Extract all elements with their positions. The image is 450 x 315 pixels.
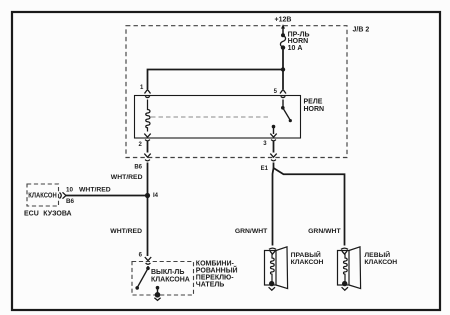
svg-text:J/B 2: J/B 2: [353, 26, 370, 33]
pin 3 connector: [270, 134, 276, 141]
horn switch contact top: [147, 266, 149, 268]
wire split to left horn: [274, 168, 345, 246]
wire fuse to junction: [282, 48, 284, 70]
junction node (fuse output): [281, 67, 285, 71]
pin 2 connector: [144, 134, 150, 141]
svg-text:КОМБИНИ-: КОМБИНИ-: [196, 261, 235, 268]
junction box J/B 2 (dashed boundary): [126, 26, 347, 158]
svg-text:10 А: 10 А: [288, 45, 303, 52]
svg-text:WHT/RED: WHT/RED: [111, 174, 143, 181]
svg-text:+12В: +12В: [275, 17, 292, 24]
wire pin 3 to E1: [273, 141, 275, 153]
right horn ПРАВЫЙ КЛАКСОН: [265, 247, 288, 289]
fuse ПР-ЛЬ HORN 10 A: [281, 33, 285, 37]
ground (right horn): [269, 287, 275, 290]
wire junction to relay pin 5: [282, 70, 284, 90]
left horn ЛЕВЫЙ КЛАКСОН: [338, 247, 361, 289]
relay switch fixed contact to pin 3: [272, 125, 276, 129]
ECU body box (dashed): [27, 184, 59, 206]
pin 1 connector: [145, 90, 151, 98]
svg-text:10: 10: [66, 187, 74, 194]
wire I4 to horn switch: [147, 196, 149, 257]
pin 5 connector: [280, 90, 286, 98]
relay switch contact from pin 5: [282, 100, 284, 108]
svg-text:GRN/WHT: GRN/WHT: [308, 228, 341, 235]
wire pin 2 to B6: [147, 141, 149, 153]
wire junction left and down to relay pin 1: [148, 70, 284, 90]
svg-text:ВЫКЛ-ЛЬ: ВЫКЛ-ЛЬ: [151, 269, 184, 276]
svg-text:КЛАКСОН: КЛАКСОН: [28, 192, 56, 199]
svg-text:WHT/RED: WHT/RED: [110, 228, 142, 235]
svg-text:I4: I4: [153, 193, 159, 199]
connector B6: [144, 154, 150, 161]
svg-text:ПЕРЕКЛЮ-: ПЕРЕКЛЮ-: [196, 275, 234, 282]
svg-text:HORN: HORN: [304, 106, 325, 113]
svg-text:КУЗОВА: КУЗОВА: [43, 211, 71, 218]
relay switch blade (open): [283, 108, 291, 121]
wire split to right horn: [273, 168, 274, 246]
left horn connector: [341, 248, 348, 254]
ECU connector: [60, 192, 67, 198]
svg-text:ПРАВЫЙ: ПРАВЫЙ: [291, 250, 321, 259]
svg-text:КЛАКСОН: КЛАКСОН: [291, 259, 324, 266]
relay HORN box: [135, 96, 301, 139]
relay internal dashed link: [151, 116, 269, 118]
combination switch box (dashed): [132, 262, 194, 296]
connector E1: [270, 154, 276, 161]
horn switch connector pin 6: [145, 257, 151, 264]
svg-text:ECU: ECU: [24, 211, 39, 218]
horn switch fixed contact to ground: [156, 286, 160, 290]
wire battery feed arrow: [282, 28, 284, 35]
ground (horn switch): [155, 292, 161, 298]
svg-text:B6: B6: [134, 164, 142, 170]
svg-text:E1: E1: [261, 166, 269, 172]
relay coil: [146, 100, 150, 132]
svg-text:КЛАКСОН: КЛАКСОН: [364, 259, 397, 266]
svg-text:ЛЕВЫЙ: ЛЕВЫЙ: [364, 250, 390, 259]
wire ECU to I4: [66, 195, 148, 197]
wire E1 to split: [273, 163, 275, 169]
svg-text:КЛАКСОНА: КЛАКСОНА: [151, 277, 190, 284]
ground (left horn): [342, 287, 348, 290]
svg-text:GRN/WHT: GRN/WHT: [235, 228, 268, 235]
wire B6 to node I4: [147, 163, 149, 196]
svg-text:РОВАННЫЙ: РОВАННЫЙ: [196, 266, 238, 275]
node I4: [145, 193, 150, 198]
right horn connector: [269, 248, 276, 254]
svg-text:HORN: HORN: [288, 38, 309, 45]
svg-text:РЕЛЕ: РЕЛЕ: [304, 98, 323, 105]
svg-text:B6: B6: [66, 198, 75, 205]
horn switch blade (open): [137, 268, 148, 287]
svg-text:WHT/RED: WHT/RED: [79, 187, 111, 194]
svg-text:ЧАТЕЛЬ: ЧАТЕЛЬ: [196, 282, 225, 289]
